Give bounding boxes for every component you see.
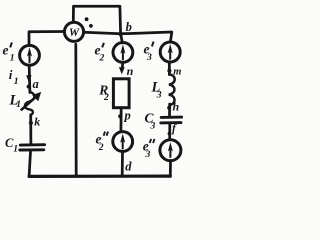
switch k blade (21, 92, 41, 110)
label e''3 (143, 138, 155, 160)
wattmeter polarity dot 2 (89, 24, 93, 28)
current arrow at node n (119, 67, 125, 74)
svg-text:p: p (124, 109, 131, 123)
wattmeter polarity dot 1 (85, 17, 89, 21)
svg-text:3: 3 (156, 89, 162, 100)
wire between L1 and C1 (29, 115, 32, 144)
source e'2 (113, 43, 133, 63)
label e''2 (96, 132, 109, 153)
inductor L3 coil (169, 74, 175, 105)
wire top-left corner (29, 32, 64, 44)
wire top from W to node b to right corner (84, 32, 172, 42)
svg-text:d: d (125, 160, 132, 174)
wire wattmeter potential-coil loop (73, 6, 120, 34)
svg-text:i: i (9, 67, 13, 82)
wire below e'1 (28, 66, 31, 93)
capacitor C1 (20, 145, 45, 150)
svg-text:1: 1 (16, 99, 21, 110)
wire below C1 (29, 150, 31, 176)
svg-text:2: 2 (98, 142, 104, 153)
source e''3 (160, 140, 181, 161)
node h dot (167, 106, 171, 110)
svg-text:3: 3 (150, 121, 156, 132)
wire below e''3 (169, 161, 172, 176)
label e'1 (3, 42, 15, 63)
wire C3 to e''3 through node f (168, 124, 171, 140)
source e'1 (20, 45, 40, 65)
node m dot (167, 69, 171, 73)
svg-text:2: 2 (99, 53, 105, 64)
wire wattmeter down to bottom node (74, 44, 77, 176)
label i1 (9, 67, 19, 87)
node a dot (27, 85, 31, 89)
source e''2 (113, 132, 133, 152)
inductor L1 coil (25, 92, 35, 115)
label R2 (98, 82, 109, 103)
label L1 (9, 93, 22, 111)
svg-text:b: b (126, 20, 132, 34)
svg-text:3: 3 (145, 149, 151, 160)
svg-text:a: a (33, 77, 39, 91)
svg-text:W: W (69, 27, 80, 39)
node k dot (29, 121, 33, 125)
wire node b to e'2 (121, 34, 123, 43)
capacitor C3 (161, 117, 182, 123)
source e'3 (160, 42, 180, 62)
wire below e''2 to node d (121, 152, 124, 176)
wire R2 to e''2 through node p (120, 108, 123, 132)
svg-text:k: k (34, 114, 40, 128)
wire L3 to C3 through node h (168, 104, 171, 116)
node p dot (118, 114, 122, 118)
label e'3 (144, 42, 154, 64)
wire bottom bus (29, 175, 170, 178)
svg-text:1: 1 (10, 53, 15, 64)
op W wattmeter U1 (64, 22, 83, 41)
label e'2 (95, 42, 105, 63)
svg-text:1: 1 (14, 76, 19, 87)
svg-text:2: 2 (103, 92, 109, 103)
svg-text:1: 1 (13, 144, 18, 155)
wire below e'3 to node m (168, 62, 171, 74)
label L3 (151, 80, 162, 101)
node f dot (168, 132, 172, 136)
node b dot (118, 32, 122, 36)
current arrow i1 (26, 75, 31, 82)
wire below e'2 to node n (121, 63, 124, 68)
label C1 (5, 136, 18, 155)
label C3 (145, 110, 156, 131)
resistor R2 (113, 79, 129, 108)
svg-text:n: n (127, 64, 134, 78)
svg-text:e: e (3, 43, 9, 58)
svg-text:m: m (173, 66, 181, 77)
svg-text:h: h (173, 100, 180, 114)
svg-text:3: 3 (146, 52, 152, 63)
